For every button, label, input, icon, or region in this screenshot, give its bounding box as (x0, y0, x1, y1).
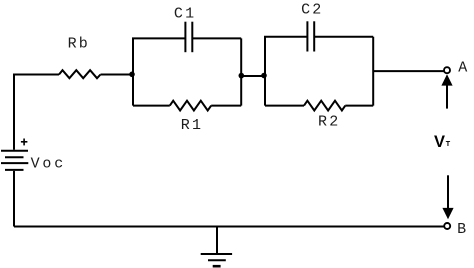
svg-text:C1: C1 (174, 6, 196, 23)
wire loop2 top edge right segment (314, 36, 373, 38)
svg-text:C2: C2 (301, 2, 323, 19)
arrow down toward B (shaft) (447, 175, 449, 208)
node 3 junction dot (261, 73, 267, 79)
resistor R2 (304, 101, 345, 111)
capacitor C1 (185, 22, 192, 53)
wire loop2 top edge left segment (264, 36, 307, 38)
resistor R1 (170, 101, 211, 111)
terminal A open circle (444, 67, 450, 73)
ground stem (216, 227, 218, 254)
arrow up toward A (head) (441, 74, 452, 85)
svg-text:R1: R1 (181, 117, 203, 134)
ground bar 3 (213, 265, 221, 268)
wire loop2 bottom edge left segment (265, 105, 304, 107)
label VT (434, 133, 451, 151)
wire from battery positive up and right to Rb (14, 75, 59, 150)
wire loop2 to terminal A (373, 70, 443, 72)
wire loop1 bottom edge right segment (211, 105, 241, 107)
node 1 junction dot (129, 72, 135, 78)
battery Voc plate 1 long (1, 150, 28, 152)
wire loop2 right edge (372, 37, 374, 106)
battery Voc plate 4 short (5, 169, 24, 171)
wire battery negative down to bottom rail (13, 171, 15, 227)
svg-text:V: V (434, 133, 445, 151)
wire loop1 top edge left segment (132, 37, 185, 39)
wire bottom rail (14, 226, 444, 228)
arrow up toward A (shaft) (446, 85, 448, 109)
ground bar 2 (208, 259, 226, 261)
battery plus sign (21, 139, 28, 146)
wire loop1 bottom edge left segment (133, 105, 170, 107)
wire loop1 right edge (240, 38, 242, 105)
svg-text:Rb: Rb (68, 35, 90, 52)
node 2 junction dot (239, 73, 245, 79)
svg-text:R2: R2 (318, 114, 340, 131)
wire loop1 left edge (132, 38, 134, 105)
svg-text:B: B (457, 221, 468, 238)
terminal B open circle (444, 223, 450, 229)
arrow down toward B (head) (442, 208, 453, 219)
svg-text:T: T (446, 139, 451, 148)
wire loop2 left edge (264, 37, 266, 106)
battery Voc plate 3 long (1, 162, 28, 164)
wire between loop1 and loop2 (241, 75, 265, 77)
wire Rb to node 1 (101, 74, 134, 76)
svg-text:Voc: Voc (31, 155, 66, 172)
resistor Rb (59, 70, 101, 78)
wire loop1 top edge right segment (192, 37, 241, 39)
wire loop2 bottom edge right segment (345, 105, 373, 107)
battery Voc plate 2 short (5, 156, 24, 158)
capacitor C2 (307, 21, 314, 51)
svg-text:A: A (458, 59, 469, 76)
ground bar 1 (201, 253, 232, 255)
